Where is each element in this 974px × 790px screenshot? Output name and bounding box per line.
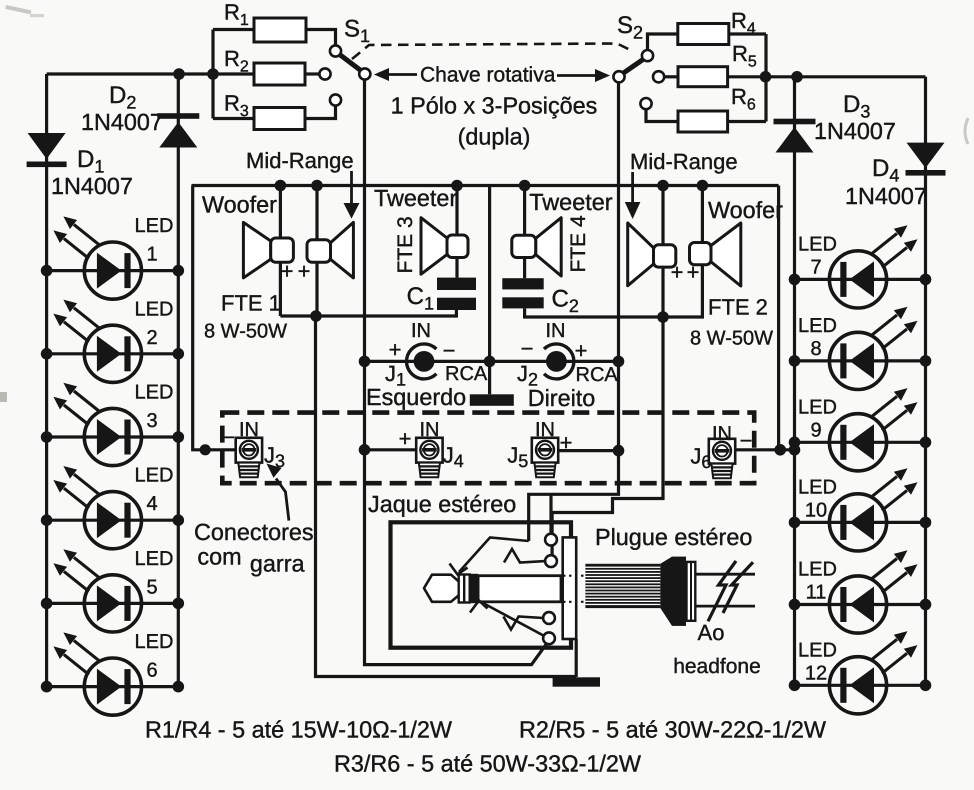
svg-text:+: +: [575, 338, 588, 363]
svg-text:10: 10: [805, 499, 827, 521]
svg-text:1N4007: 1N4007: [845, 183, 927, 209]
svg-text:3: 3: [146, 410, 157, 432]
svg-text:Tweeter: Tweeter: [374, 185, 457, 211]
ground bar between RCA jacks: [470, 394, 514, 406]
svg-text:R6: R6: [731, 84, 756, 114]
wire: LED 1 row: [47, 269, 179, 272]
wire: LED 11 row: [795, 603, 926, 606]
capacitor C1: [437, 278, 476, 290]
svg-text:Woofer: Woofer: [202, 192, 277, 218]
svg-text:Jaque estéreo: Jaque estéreo: [368, 491, 516, 517]
connector J5: [558, 449, 619, 452]
arrow to mid-range (left): [350, 171, 353, 203]
wire: LED 3 row: [47, 435, 179, 438]
svg-text:IN: IN: [239, 419, 259, 441]
svg-text:Conectores: Conectores: [194, 519, 314, 545]
svg-text:IN: IN: [411, 320, 431, 342]
wire: LED 2 row: [47, 352, 179, 355]
resistor R3: [213, 117, 254, 120]
junction dots top-right: [760, 71, 772, 83]
arrow to mid-range (right): [631, 172, 634, 202]
svg-text:D2: D2: [109, 82, 136, 113]
svg-text:8: 8: [810, 338, 821, 360]
jack ring contact arm: [482, 603, 543, 636]
svg-text:4: 4: [146, 493, 157, 515]
wire: S1 pole drop, to J1+, J4+, jack lower terminal: [365, 80, 547, 665]
LED 5: [53, 549, 141, 632]
svg-text:IN: IN: [712, 423, 732, 445]
svg-text:−: −: [223, 427, 235, 449]
svg-text:LED: LED: [135, 465, 174, 487]
wire: midrange2 column: [661, 186, 664, 318]
junction dots top-left: [173, 68, 185, 80]
svg-text:Ao: Ao: [698, 620, 725, 645]
wire: LED 12 row: [795, 684, 926, 687]
svg-text:J4: J4: [443, 443, 464, 472]
LED 8: [829, 307, 917, 390]
svg-text:Chave rotativa: Chave rotativa: [420, 64, 556, 87]
svg-text:D1: D1: [77, 146, 104, 177]
resistor R4: [678, 24, 729, 45]
diode D3 1N4007: [774, 119, 816, 125]
LED 12: [829, 631, 917, 714]
svg-text:LED: LED: [798, 396, 837, 418]
svg-text:LED: LED: [798, 639, 837, 661]
wire: tweeter FTE4 column: [523, 186, 526, 279]
junction dots left speakers: [275, 180, 287, 192]
svg-text:+: +: [399, 426, 412, 451]
svg-text:RCA: RCA: [445, 363, 488, 385]
plug barrel (striped): [585, 564, 660, 608]
svg-text:LED: LED: [798, 233, 837, 255]
plug inside jack: tip: [424, 575, 459, 602]
svg-text:R5: R5: [732, 41, 757, 71]
LED 11: [829, 550, 917, 633]
wire: common bottom right (y=317): [525, 265, 703, 317]
break slashes: [708, 561, 736, 621]
svg-text:garra: garra: [250, 551, 306, 577]
svg-text:S1: S1: [344, 16, 370, 47]
resistor R6: [678, 111, 728, 132]
svg-text:C1: C1: [407, 283, 434, 314]
svg-text:+: +: [281, 259, 294, 284]
resistor R2: [254, 63, 305, 85]
resistor R5: [678, 67, 728, 87]
wire: crossover box top edge: [192, 184, 779, 187]
svg-text:FTE 2: FTE 2: [708, 295, 768, 320]
LED 9: [829, 388, 917, 471]
connector J3: [236, 438, 262, 477]
wire: RCA row: [365, 360, 619, 363]
wires to headphone: [695, 573, 755, 576]
jack terminals: [545, 534, 557, 546]
LED 6: [53, 632, 141, 715]
jack panel bar: [563, 537, 577, 639]
wire: LED 4 row: [47, 519, 179, 522]
jack tip contact arm: [459, 538, 529, 573]
speaker woofer FTE1: [243, 222, 270, 278]
svg-text:+: +: [687, 260, 700, 285]
wire: LED 5 row: [47, 602, 179, 605]
svg-text:Woofer: Woofer: [708, 197, 783, 223]
svg-text:LED: LED: [135, 548, 174, 570]
node: R4/R5/R6 common (right): [764, 34, 767, 122]
svg-text:FTE 1: FTE 1: [221, 291, 281, 316]
wire: S2 pole drop, to J2+, J5+, jack upper terminal 1: [529, 82, 619, 541]
wire: left inner rail: [177, 74, 180, 687]
speaker woofer FTE2: [711, 223, 741, 286]
jack spring contact lower: [503, 617, 543, 630]
connector J4: [365, 448, 417, 451]
svg-text:LED: LED: [798, 559, 837, 581]
wire: panel to ground: [575, 639, 578, 677]
svg-text:Direito: Direito: [528, 385, 596, 411]
speaker tweeter FTE4: [536, 218, 562, 276]
LED 1: [53, 216, 141, 299]
wire: LED 9 row: [795, 441, 926, 444]
terminal dot + wire into J3: [200, 444, 211, 455]
svg-text:8 W-50W: 8 W-50W: [690, 328, 773, 350]
wire: woofer2 column: [701, 186, 704, 243]
svg-text:LED: LED: [798, 315, 837, 337]
LED 4: [53, 466, 141, 549]
wire: right inner rail: [793, 77, 796, 686]
label Chave rotativa with arrows: [374, 68, 389, 81]
svg-text:LED: LED: [135, 631, 174, 653]
svg-text:R2: R2: [224, 46, 249, 76]
wire: upper terminal 2 drop: [549, 494, 552, 534]
resistor R1: [213, 28, 254, 31]
svg-text:+: +: [298, 259, 311, 284]
wire: LED 6 row: [47, 685, 179, 688]
svg-text:12: 12: [805, 662, 827, 684]
wire: C2/FTE2 bottom to jack terminal: [552, 317, 663, 556]
svg-text:LED: LED: [135, 215, 174, 237]
ground bar below jack: [553, 677, 600, 686]
wire: top-left horizontal: [47, 72, 254, 75]
capacitor C2: [502, 278, 543, 289]
svg-text:+: +: [389, 337, 402, 362]
jack spring contact upper: [504, 549, 545, 563]
dashed box: conectores com garra: [222, 413, 754, 484]
LED 10: [829, 468, 917, 551]
svg-text:+: +: [671, 260, 684, 285]
svg-text:R1/R4 - 5 até 15W-10Ω-1/2W: R1/R4 - 5 até 15W-10Ω-1/2W: [145, 717, 452, 743]
wire: box left edge down to J3: [193, 186, 236, 450]
svg-text:LED: LED: [798, 476, 837, 498]
connector J6: [774, 444, 786, 456]
LED 3: [53, 383, 141, 466]
wire: box right edge down to J6 node: [735, 186, 795, 450]
svg-text:D3: D3: [843, 91, 870, 122]
svg-text:7: 7: [810, 256, 821, 278]
jack box: [391, 522, 572, 647]
svg-text:com: com: [197, 544, 241, 570]
svg-text:1 Pólo x 3-Posições: 1 Pólo x 3-Posições: [391, 93, 598, 119]
wire: tweeter FTE3 column: [455, 186, 458, 278]
svg-text:1: 1: [146, 244, 157, 266]
svg-text:Tweeter: Tweeter: [529, 189, 612, 215]
svg-text:6: 6: [146, 660, 157, 682]
wire: right outer rail: [924, 77, 927, 686]
svg-text:9: 9: [810, 419, 821, 441]
diode D1 1N4007: [28, 133, 66, 159]
plug shaft: [478, 576, 561, 602]
svg-text:−: −: [443, 338, 456, 363]
svg-text:+: +: [560, 430, 573, 455]
RCA jack J1 (Esquerdo): [407, 344, 437, 379]
speaker mid-range (right): [628, 223, 654, 286]
svg-text:11: 11: [806, 582, 827, 604]
svg-text:C2: C2: [552, 286, 579, 317]
svg-text:R1: R1: [224, 0, 249, 29]
wire: LED 8 row: [795, 359, 926, 362]
svg-text:R2/R5 - 5 até 30W-22Ω-1/2W: R2/R5 - 5 até 30W-22Ω-1/2W: [519, 717, 826, 743]
svg-text:Mid-Range: Mid-Range: [246, 148, 354, 173]
svg-text:LED: LED: [135, 298, 174, 320]
svg-text:8 W-50W: 8 W-50W: [204, 321, 287, 343]
diode D2 1N4007: [157, 113, 199, 119]
RCA jack J2 (Direito): [544, 344, 574, 379]
svg-text:headfone: headfone: [673, 655, 761, 678]
switch S1: [330, 45, 341, 56]
wire: LED 7 row: [795, 278, 926, 281]
junction dots right speakers: [519, 180, 531, 192]
wire: FTE1 bottom to jack ground: [316, 316, 577, 677]
svg-text:(dupla): (dupla): [458, 124, 531, 150]
LED 2: [53, 300, 141, 383]
svg-text:1N4007: 1N4007: [814, 118, 896, 144]
wire: center ground drop to RCA minus: [488, 186, 491, 395]
svg-text:IN: IN: [546, 320, 566, 342]
svg-text:Esquerdo: Esquerdo: [366, 384, 466, 410]
svg-text:Mid-Range: Mid-Range: [630, 149, 738, 174]
plug collar: [672, 557, 686, 626]
svg-text:D4: D4: [872, 155, 899, 186]
svg-text:IN: IN: [535, 419, 555, 441]
diode D4 1N4007: [907, 143, 945, 168]
svg-text:5: 5: [146, 576, 157, 598]
wire: top-right horizontal: [728, 75, 926, 78]
wire: woofer1 column: [279, 186, 282, 317]
speaker tweeter FTE3: [421, 218, 447, 275]
svg-text:S2: S2: [617, 12, 643, 43]
dashed link S1-S2: [352, 44, 634, 60]
speaker mid-range (left): [331, 222, 354, 278]
wire: LED 10 row: [795, 521, 926, 524]
wire: left outer rail: [45, 74, 48, 687]
svg-text:R3: R3: [224, 91, 249, 121]
svg-text:2: 2: [146, 327, 157, 349]
svg-text:R3/R6 - 5 até 50W-33Ω-1/2W: R3/R6 - 5 até 50W-33Ω-1/2W: [334, 751, 641, 777]
wire: midrange1 column: [315, 186, 318, 317]
node: R1/R2/R3 common (left): [211, 30, 214, 119]
svg-text:J5: J5: [507, 443, 528, 472]
wire: common bottom left (y=316): [280, 310, 456, 316]
svg-text:FTE 3: FTE 3: [394, 216, 417, 273]
switch S2: [642, 50, 653, 61]
svg-text:FTE 4: FTE 4: [567, 215, 590, 272]
LED 7: [829, 225, 917, 308]
svg-text:IN: IN: [420, 419, 440, 441]
svg-text:RCA: RCA: [576, 364, 619, 386]
svg-text:1N4007: 1N4007: [81, 109, 163, 135]
svg-text:−: −: [740, 428, 753, 453]
svg-text:Plugue estéreo: Plugue estéreo: [595, 524, 752, 550]
svg-text:1N4007: 1N4007: [51, 173, 133, 199]
svg-text:LED: LED: [135, 382, 174, 404]
svg-text:−: −: [521, 336, 534, 361]
